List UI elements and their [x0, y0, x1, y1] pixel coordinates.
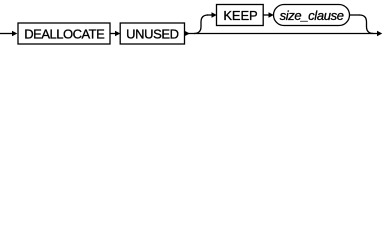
keyword box KEEP	[217, 5, 264, 26]
arrowhead into UNUSED	[115, 31, 120, 37]
keyword box UNUSED	[120, 23, 184, 44]
nonterminal oval size_clause	[274, 5, 350, 26]
wire: main bypass line after UNUSED to exit	[185, 33, 379, 35]
arrowhead into DEALLOCATE	[12, 31, 17, 37]
wire: line from size_clause to merge curve	[350, 14, 361, 16]
arrowhead into KEEP	[212, 12, 217, 18]
arrowhead after UNUSED at branch point	[185, 31, 190, 37]
arrowhead exit at right edge	[377, 31, 382, 37]
wire: line between DEALLOCATE and UNUSED	[110, 33, 116, 35]
svg-text:DEALLOCATE: DEALLOCATE	[24, 27, 105, 42]
svg-text:UNUSED: UNUSED	[126, 27, 179, 42]
wire: entry line	[0, 33, 13, 35]
arrowhead into size_clause	[269, 12, 274, 18]
wire: branch split curve up to KEEP path	[194, 15, 208, 34]
wire: top line into KEEP	[207, 14, 213, 16]
wire: branch merge curve down to main line	[360, 15, 374, 34]
svg-text:size_clause: size_clause	[280, 8, 344, 23]
keyword box DEALLOCATE	[18, 23, 110, 44]
wire: line between KEEP and size_clause	[263, 14, 269, 16]
svg-text:KEEP: KEEP	[223, 8, 257, 23]
